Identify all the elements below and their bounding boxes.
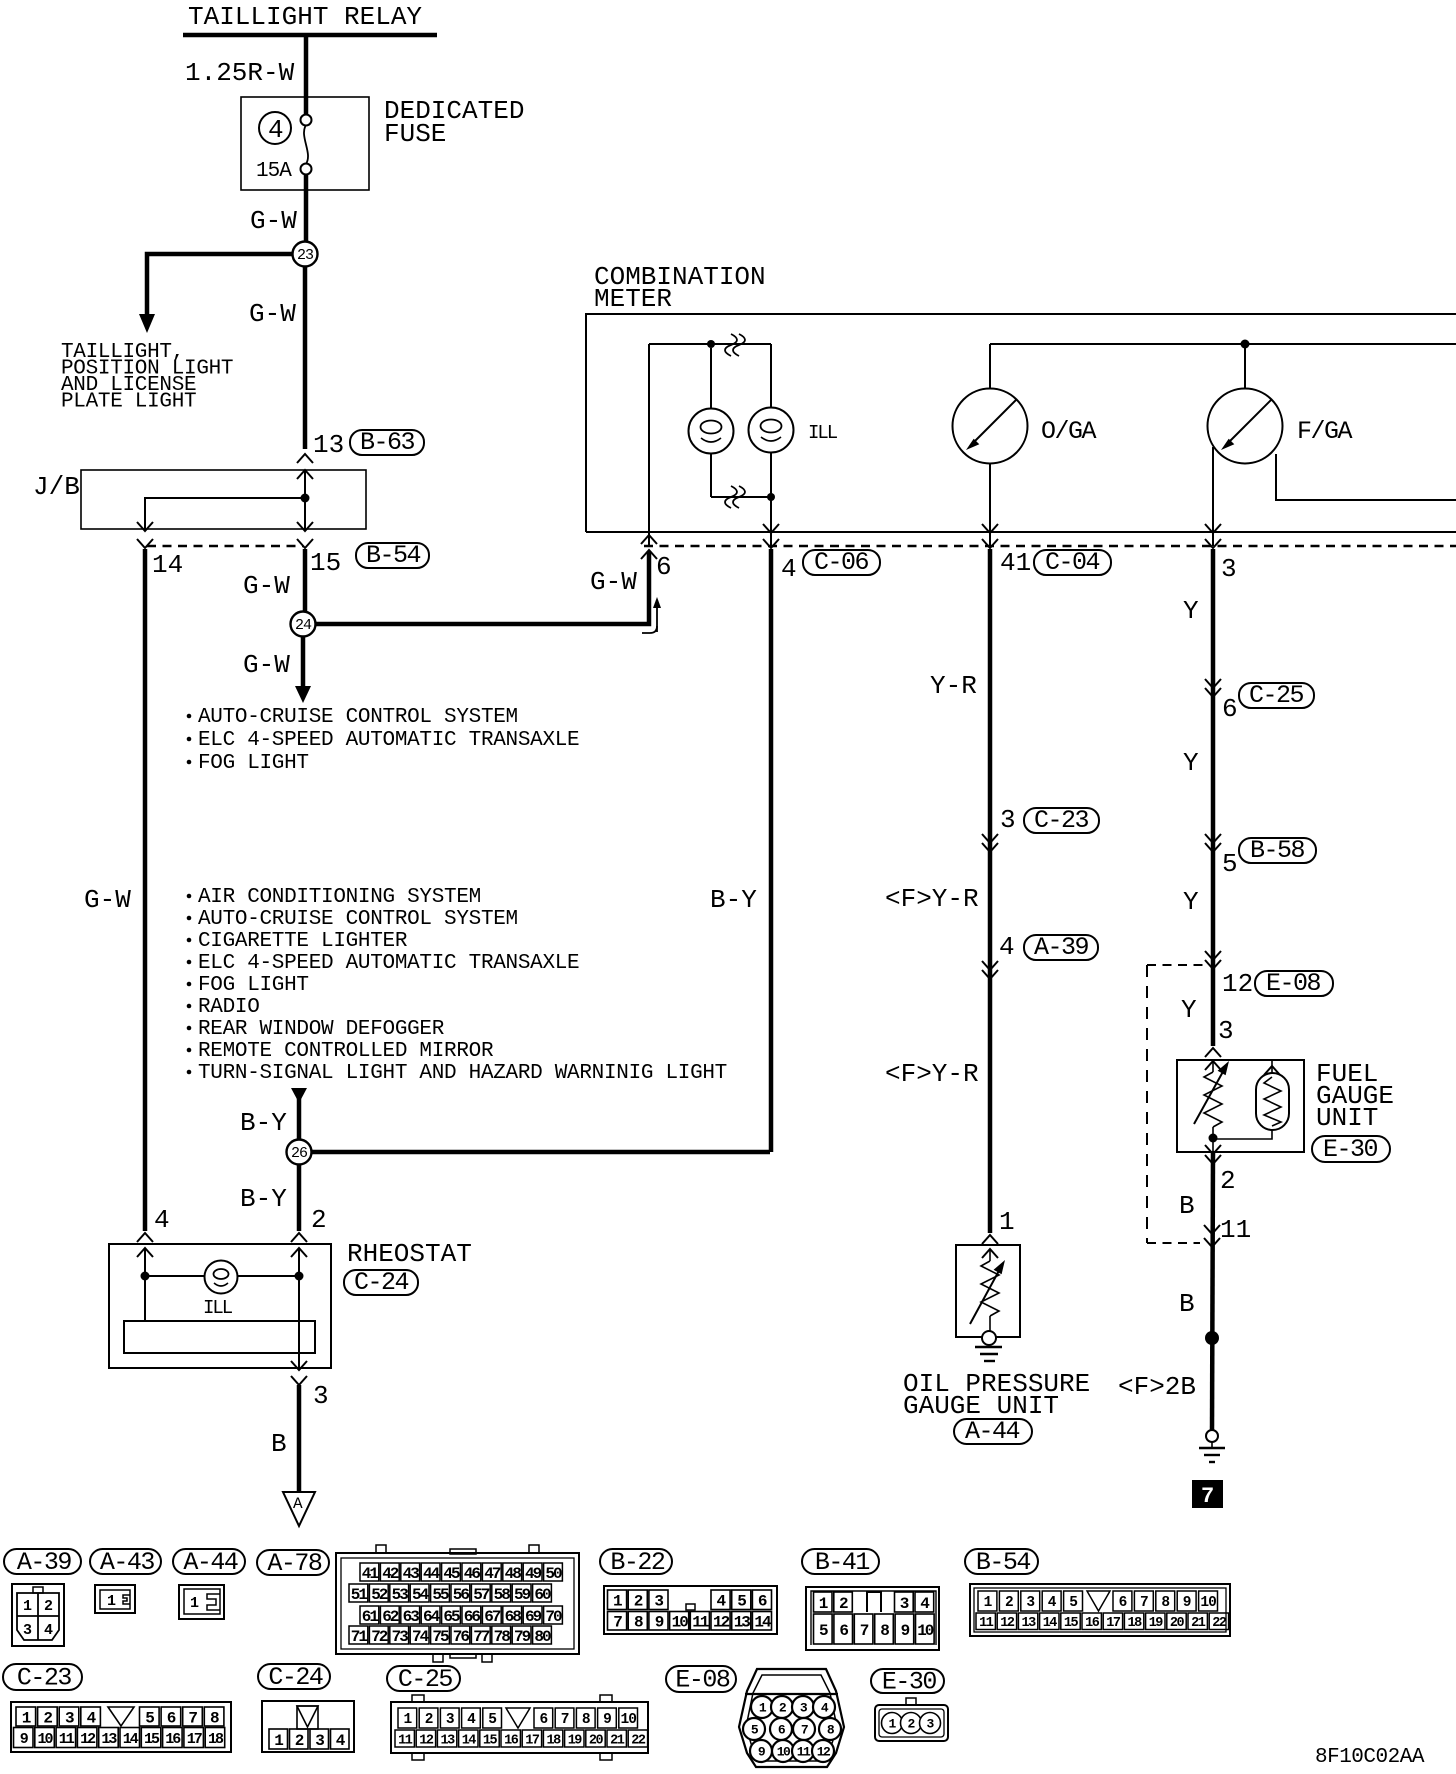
svg-text:6: 6: [1222, 694, 1238, 724]
svg-text:26: 26: [291, 1145, 308, 1162]
svg-text:57: 57: [473, 1586, 490, 1604]
svg-text:6: 6: [540, 1712, 548, 1728]
svg-text:50: 50: [545, 1565, 562, 1583]
wire label B-Y: [240, 1184, 287, 1214]
connector label A-44: [173, 1548, 245, 1577]
fuel gauge unit label: [1316, 1059, 1394, 1133]
svg-text:48: 48: [505, 1565, 522, 1583]
svg-text:RHEOSTAT: RHEOSTAT: [347, 1239, 472, 1269]
connector label A-78: [257, 1549, 329, 1578]
svg-text:ELC 4-SPEED AUTOMATIC TRANSAXL: ELC 4-SPEED AUTOMATIC TRANSAXLE: [198, 952, 579, 975]
svg-text:8: 8: [880, 1622, 889, 1640]
oil gauge O/GA: [953, 344, 1028, 546]
svg-text:6: 6: [758, 1593, 767, 1611]
pin 2 label rheostat: [311, 1205, 327, 1235]
branch node 24 to meter pin 6: [315, 551, 649, 624]
svg-text:C-06: C-06: [814, 548, 869, 577]
fuel unit coil: [1216, 1060, 1289, 1139]
svg-text:3: 3: [23, 1622, 32, 1639]
illumination lamp right: [749, 344, 794, 497]
svg-text:76: 76: [453, 1628, 470, 1646]
svg-text:73: 73: [392, 1628, 409, 1646]
svg-text:3: 3: [900, 1595, 909, 1613]
svg-text:53: 53: [392, 1586, 409, 1604]
svg-text:71: 71: [351, 1628, 368, 1646]
svg-text:E-08: E-08: [675, 1666, 730, 1695]
wire label (F)2B: [1118, 1372, 1196, 1402]
svg-text:1: 1: [819, 1595, 828, 1613]
wire label B 2: [1179, 1289, 1195, 1319]
svg-text:15: 15: [310, 548, 341, 578]
ground triangle A: [283, 1492, 315, 1526]
svg-text:6: 6: [1119, 1595, 1127, 1611]
svg-text:68: 68: [505, 1608, 522, 1626]
wire pin 14 down: [143, 549, 148, 1231]
svg-text:<F>2B: <F>2B: [1118, 1372, 1196, 1402]
fuel unit junction dot: [1209, 1134, 1218, 1143]
svg-text:10: 10: [917, 1622, 934, 1640]
svg-text:G-W: G-W: [250, 206, 297, 236]
svg-text:10: 10: [621, 1712, 637, 1728]
flex print squiggle bottom: [725, 486, 745, 508]
svg-text:18: 18: [547, 1733, 562, 1748]
wire label G-W left: [84, 885, 131, 915]
chevrons meter pin 4: [763, 524, 779, 548]
chevrons into J/B pin 13: [297, 454, 313, 479]
svg-text:49: 49: [525, 1565, 542, 1583]
J/B internal wire: [145, 470, 305, 529]
svg-text:60: 60: [534, 1586, 551, 1604]
svg-text:4: 4: [87, 1709, 97, 1727]
pin 15 label: [310, 548, 341, 578]
svg-text:47: 47: [484, 1565, 501, 1583]
arrowhead to taillight: [139, 314, 155, 333]
svg-text:4: 4: [1048, 1595, 1057, 1611]
svg-text:1: 1: [22, 1709, 31, 1727]
svg-text:C-23: C-23: [1034, 806, 1089, 835]
connector label C-25: [387, 1665, 460, 1694]
svg-text:78: 78: [494, 1628, 511, 1646]
taillight annotation: [61, 341, 233, 414]
rheostat junction dots: [141, 1272, 304, 1281]
svg-text:9: 9: [901, 1622, 910, 1640]
svg-text:41: 41: [1000, 548, 1031, 578]
connector E-30 body: [875, 1698, 948, 1741]
svg-text:4: 4: [268, 115, 284, 145]
svg-text:4: 4: [717, 1593, 727, 1611]
connector label B-41: [802, 1548, 879, 1577]
svg-text:23: 23: [297, 247, 314, 264]
svg-text:22: 22: [1212, 1616, 1227, 1631]
svg-text:1: 1: [613, 1593, 622, 1611]
fuel gauge F/GA: [1208, 344, 1283, 464]
svg-text:8: 8: [634, 1614, 643, 1632]
chevrons fuel unit exit: [1205, 1145, 1221, 1164]
svg-text:13: 13: [1022, 1616, 1037, 1631]
dedicated fuse box: [241, 97, 369, 190]
chevrons into rheostat pin 2: [291, 1233, 307, 1257]
systems list 1: [187, 706, 580, 775]
svg-text:65: 65: [443, 1608, 460, 1626]
svg-text:A-43: A-43: [100, 1548, 155, 1577]
fuse rating 15A: [256, 160, 292, 183]
svg-text:8: 8: [210, 1709, 219, 1727]
svg-text:Y: Y: [1181, 995, 1197, 1025]
meter connector dashed line: [644, 545, 1456, 547]
svg-text:15A: 15A: [256, 160, 292, 183]
chevrons B-58 crossing: [1205, 834, 1221, 852]
F/GA label: [1297, 417, 1353, 446]
arrow into pin 6: [642, 597, 661, 633]
svg-text:C-24: C-24: [354, 1268, 409, 1297]
svg-text:21: 21: [1191, 1616, 1206, 1631]
svg-text:B-63: B-63: [360, 428, 415, 457]
svg-text:15: 15: [483, 1733, 498, 1748]
oil pressure gauge unit box: [956, 1245, 1020, 1337]
svg-text:17: 17: [525, 1733, 540, 1748]
connector label C-23: [3, 1664, 82, 1693]
svg-text:18: 18: [1128, 1616, 1143, 1631]
svg-text:12: 12: [817, 1745, 831, 1760]
wire label (F)Y-R: [885, 884, 979, 914]
wire label B fuel: [1179, 1191, 1195, 1221]
svg-text:PLATE LIGHT: PLATE LIGHT: [61, 391, 196, 414]
fuel unit variable resistor: [1194, 1061, 1229, 1152]
taillight relay bus bar: [183, 33, 437, 38]
svg-text:80: 80: [534, 1628, 551, 1646]
svg-text:A-44: A-44: [965, 1417, 1020, 1446]
pin 4 tag A-39: [999, 932, 1098, 962]
svg-text:AIR CONDITIONING SYSTEM: AIR CONDITIONING SYSTEM: [198, 886, 481, 909]
wire rheostat to ground A: [297, 1385, 302, 1492]
svg-text:C-04: C-04: [1045, 548, 1100, 577]
connector tag B-63: [350, 428, 424, 457]
connector label E-30: [871, 1668, 944, 1697]
svg-text:5: 5: [488, 1712, 496, 1728]
svg-text:ILL: ILL: [203, 1297, 233, 1319]
lamp rail bottom: [711, 493, 775, 501]
svg-text:2: 2: [295, 1732, 304, 1750]
svg-text:69: 69: [525, 1608, 542, 1626]
wire relay to fuse: [304, 35, 309, 115]
svg-text:16: 16: [165, 1731, 181, 1748]
connector label C-24: [258, 1663, 330, 1692]
svg-text:2: 2: [1005, 1595, 1013, 1611]
wire label G-W pin6: [590, 567, 637, 597]
branch meter pin 4 to node 26: [311, 1150, 770, 1155]
svg-text:METER: METER: [594, 284, 672, 314]
F/GA wire to pin 3: [1212, 447, 1214, 546]
svg-text:5: 5: [737, 1593, 746, 1611]
svg-text:ELC 4-SPEED AUTOMATIC TRANSAXL: ELC 4-SPEED AUTOMATIC TRANSAXLE: [198, 729, 579, 752]
svg-text:UNIT: UNIT: [1316, 1103, 1378, 1133]
svg-text:41: 41: [362, 1565, 379, 1583]
svg-text:7: 7: [188, 1709, 197, 1727]
wire label G-W: [243, 571, 290, 601]
svg-text:Y-R: Y-R: [930, 671, 977, 701]
svg-text:14: 14: [1043, 1616, 1058, 1631]
svg-text:<F>Y-R: <F>Y-R: [885, 884, 979, 914]
meter internal wire pin 4 drop: [770, 497, 772, 546]
chevrons meter pin 41: [982, 524, 998, 548]
svg-text:14: 14: [152, 550, 183, 580]
svg-text:11: 11: [1220, 1215, 1251, 1245]
svg-text:J/B: J/B: [33, 472, 80, 502]
rheostat label: [347, 1239, 472, 1269]
wire pin 3 down fuel: [1211, 549, 1216, 1046]
svg-text:B-Y: B-Y: [240, 1184, 287, 1214]
connector A-39 body: [12, 1584, 64, 1646]
oil unit variable resistor: [970, 1249, 1005, 1332]
dedicated fuse label: [384, 96, 524, 149]
svg-text:4: 4: [920, 1595, 930, 1613]
svg-text:67: 67: [484, 1608, 501, 1626]
svg-text:B-58: B-58: [1250, 836, 1305, 865]
svg-text:4: 4: [44, 1622, 53, 1639]
svg-text:3: 3: [446, 1712, 454, 1728]
flex print squiggle top: [725, 334, 745, 356]
svg-text:52: 52: [371, 1586, 388, 1604]
wire label (F)Y-R 2: [885, 1059, 979, 1089]
pin 2 label fuel unit: [1220, 1166, 1236, 1196]
svg-text:O/GA: O/GA: [1041, 417, 1097, 446]
sub-harness dashed box: [1147, 965, 1204, 1243]
wire label G-W: [249, 299, 296, 329]
svg-text:13: 13: [441, 1733, 456, 1748]
svg-text:12: 12: [1222, 969, 1253, 999]
svg-text:4: 4: [467, 1712, 476, 1728]
fuse element: [301, 115, 312, 175]
svg-text:<F>Y-R: <F>Y-R: [885, 1059, 979, 1089]
wire label Y 4: [1181, 995, 1197, 1025]
wire label Y 3: [1183, 887, 1199, 917]
svg-text:2: 2: [634, 1593, 643, 1611]
connector tag E-30: [1312, 1135, 1390, 1164]
svg-text:REAR WINDOW DEFOGGER: REAR WINDOW DEFOGGER: [198, 1018, 445, 1041]
svg-text:8: 8: [582, 1712, 590, 1728]
svg-text:B-22: B-22: [610, 1548, 665, 1577]
svg-text:16: 16: [504, 1733, 519, 1748]
svg-text:22: 22: [631, 1733, 646, 1748]
svg-text:5: 5: [1069, 1595, 1077, 1611]
body ground: [1199, 1430, 1225, 1462]
svg-text:15: 15: [1064, 1616, 1079, 1631]
svg-text:75: 75: [432, 1628, 449, 1646]
chevrons J/B exit pin 14: [137, 522, 153, 548]
connector tag C-04: [1034, 548, 1111, 577]
svg-text:A-39: A-39: [17, 1548, 72, 1577]
svg-text:43: 43: [403, 1565, 420, 1583]
svg-text:3: 3: [1000, 805, 1016, 835]
svg-text:24: 24: [295, 617, 312, 634]
svg-text:4: 4: [999, 932, 1015, 962]
svg-text:6: 6: [656, 552, 672, 582]
svg-text:11: 11: [398, 1733, 413, 1748]
connector B-22 body: [604, 1586, 777, 1634]
svg-text:5: 5: [1222, 849, 1238, 879]
svg-text:9: 9: [603, 1712, 611, 1728]
svg-text:ILL: ILL: [808, 422, 838, 444]
svg-text:3: 3: [654, 1593, 663, 1611]
svg-text:AUTO-CRUISE CONTROL SYSTEM: AUTO-CRUISE CONTROL SYSTEM: [198, 706, 518, 729]
chevrons C-25 crossing: [1205, 679, 1221, 697]
svg-text:3: 3: [315, 1732, 324, 1750]
chevrons meter pin 6: [641, 535, 657, 559]
wire label B: [271, 1429, 287, 1459]
svg-text:59: 59: [514, 1586, 531, 1604]
svg-text:A: A: [293, 1495, 303, 1513]
pin 4 label: [781, 554, 797, 584]
svg-text:11: 11: [692, 1614, 709, 1632]
svg-text:B: B: [1179, 1289, 1195, 1319]
svg-text:7: 7: [801, 1723, 808, 1738]
svg-text:3: 3: [313, 1381, 329, 1411]
svg-text:8: 8: [1161, 1595, 1169, 1611]
svg-text:B-54: B-54: [976, 1548, 1031, 1577]
svg-text:2: 2: [1220, 1166, 1236, 1196]
svg-text:79: 79: [514, 1628, 531, 1646]
connector C-23 body: [11, 1702, 231, 1752]
svg-text:77: 77: [473, 1628, 490, 1646]
svg-text:2: 2: [425, 1712, 433, 1728]
svg-text:FUSE: FUSE: [384, 119, 446, 149]
svg-text:45: 45: [443, 1565, 460, 1583]
svg-text:1: 1: [274, 1732, 283, 1750]
gauge rail: [990, 340, 1456, 349]
svg-text:Y: Y: [1183, 596, 1199, 626]
svg-text:12: 12: [419, 1733, 434, 1748]
pin 4 label rheostat: [154, 1205, 170, 1235]
pin 3 label fuel unit: [1218, 1016, 1234, 1046]
svg-text:B: B: [1179, 1191, 1195, 1221]
svg-text:FOG LIGHT: FOG LIGHT: [198, 974, 309, 997]
svg-text:11: 11: [979, 1616, 994, 1631]
svg-text:1: 1: [23, 1598, 32, 1615]
fuel gauge unit box: [1177, 1060, 1304, 1152]
svg-text:C-25: C-25: [1249, 681, 1304, 710]
svg-text:7: 7: [1201, 1484, 1214, 1509]
svg-text:10: 10: [672, 1614, 689, 1632]
svg-text:72: 72: [371, 1628, 388, 1646]
pin 11 label: [1220, 1215, 1251, 1245]
svg-text:66: 66: [464, 1608, 481, 1626]
pin 3 label rheostat: [313, 1381, 329, 1411]
svg-text:74: 74: [412, 1628, 430, 1646]
svg-text:1: 1: [984, 1595, 993, 1611]
svg-text:A-39: A-39: [1034, 933, 1089, 962]
svg-text:20: 20: [589, 1733, 604, 1748]
svg-text:3: 3: [1221, 554, 1237, 584]
svg-text:1.25R-W: 1.25R-W: [185, 58, 295, 88]
svg-text:B: B: [271, 1429, 287, 1459]
svg-text:55: 55: [432, 1586, 449, 1604]
wire label B-Y right: [710, 885, 757, 915]
svg-text:B-Y: B-Y: [240, 1108, 287, 1138]
svg-text:42: 42: [382, 1565, 399, 1583]
systems list 2: [187, 886, 727, 1085]
wire fuel unit to ground: [1212, 1152, 1213, 1430]
svg-text:B-41: B-41: [815, 1548, 870, 1577]
oil pressure gauge unit label: [903, 1369, 1090, 1421]
rheostat lamp ILL: [205, 1261, 238, 1294]
connector label B-22: [600, 1548, 672, 1577]
combination meter label: [594, 262, 766, 314]
svg-text:6: 6: [167, 1709, 176, 1727]
pin 12 tag E-08: [1222, 969, 1333, 999]
svg-text:3: 3: [1026, 1595, 1034, 1611]
pin 41 label: [1000, 548, 1031, 578]
rheostat ILL label: [203, 1297, 233, 1319]
svg-text:9: 9: [655, 1614, 664, 1632]
svg-text:C-23: C-23: [17, 1664, 72, 1693]
svg-text:7: 7: [1140, 1595, 1148, 1611]
wire pin 41 down: [988, 549, 993, 1233]
svg-text:11: 11: [59, 1731, 75, 1748]
svg-text:REMOTE CONTROLLED MIRROR: REMOTE CONTROLLED MIRROR: [198, 1040, 494, 1063]
arrowhead from systems list down: [291, 1088, 307, 1103]
wire node 23 down: [303, 267, 308, 449]
wire label G-W: [243, 650, 290, 680]
chevrons into fuel unit: [1205, 1048, 1221, 1070]
chevrons C-23 crossing: [982, 834, 998, 852]
svg-text:2: 2: [44, 1598, 53, 1615]
svg-text:CIGARETTE LIGHTER: CIGARETTE LIGHTER: [198, 930, 408, 953]
svg-text:8F10C02AA: 8F10C02AA: [1315, 1746, 1425, 1769]
pin 6 label: [656, 552, 672, 582]
chevrons rheostat exit pin 3: [291, 1361, 307, 1385]
rheostat slider bar: [124, 1321, 315, 1353]
wire node 26 to rheostat: [297, 1164, 302, 1231]
svg-text:G-W: G-W: [243, 571, 290, 601]
wire label B-Y: [240, 1108, 287, 1138]
svg-text:62: 62: [382, 1608, 399, 1626]
connector label E-08: [666, 1666, 736, 1695]
taillight relay label: [188, 2, 422, 32]
svg-text:5: 5: [819, 1622, 828, 1640]
svg-text:7: 7: [561, 1712, 569, 1728]
svg-text:G-W: G-W: [84, 885, 131, 915]
svg-text:21: 21: [610, 1733, 625, 1748]
node 26: [287, 1140, 312, 1165]
svg-text:58: 58: [494, 1586, 511, 1604]
svg-text:16: 16: [1085, 1616, 1100, 1631]
svg-text:2: 2: [311, 1205, 327, 1235]
svg-text:1: 1: [107, 1593, 116, 1610]
svg-text:A-44: A-44: [183, 1548, 238, 1577]
svg-text:E-30: E-30: [1323, 1135, 1378, 1164]
svg-text:TURN-SIGNAL LIGHT AND HAZARD W: TURN-SIGNAL LIGHT AND HAZARD WARNINIG LI…: [198, 1062, 727, 1085]
svg-text:Y: Y: [1183, 887, 1199, 917]
ILL label: [808, 422, 838, 444]
ground reference 7: [1192, 1480, 1223, 1509]
J/B junction dot: [301, 494, 310, 503]
svg-text:4: 4: [154, 1205, 170, 1235]
branch wire to taillight: [147, 254, 296, 316]
svg-text:FOG LIGHT: FOG LIGHT: [198, 752, 309, 775]
svg-text:14: 14: [123, 1731, 139, 1748]
svg-text:17: 17: [1106, 1616, 1121, 1631]
svg-text:G-W: G-W: [249, 299, 296, 329]
svg-text:19: 19: [568, 1733, 583, 1748]
fuse number circle 4: [259, 112, 291, 145]
pin 13 label: [313, 430, 344, 460]
svg-text:Y: Y: [1183, 748, 1199, 778]
svg-text:2: 2: [43, 1709, 52, 1727]
illumination lamp left: [689, 348, 734, 497]
connector A-43 body: [95, 1585, 135, 1613]
svg-text:70: 70: [545, 1608, 562, 1626]
svg-text:20: 20: [1170, 1616, 1185, 1631]
